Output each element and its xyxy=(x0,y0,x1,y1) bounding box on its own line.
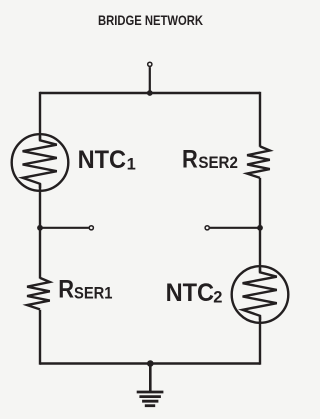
ground bar 3 xyxy=(142,400,158,403)
wire right tap xyxy=(210,227,260,229)
label RSER1 xyxy=(58,276,112,304)
label NTC2 xyxy=(166,279,223,307)
terminal left tap (open circle) xyxy=(89,226,93,230)
node A (left tap) xyxy=(37,225,93,231)
wire left upper (top wire to NTC1) xyxy=(39,92,41,140)
svg-text:R: R xyxy=(182,146,198,174)
svg-text:NTC: NTC xyxy=(78,146,127,174)
terminal VIN (open circle, top) xyxy=(147,62,153,96)
ground bar 1 xyxy=(137,391,164,394)
svg-text:SER2: SER2 xyxy=(198,154,238,172)
junction dot top xyxy=(147,90,153,96)
resistor RSER1 xyxy=(27,278,50,310)
junction dot bottom xyxy=(147,360,154,367)
wire left middle (NTC1 to RSER1) xyxy=(39,184,41,279)
svg-text:BRIDGE NETWORK: BRIDGE NETWORK xyxy=(98,12,203,28)
terminal right tap (open circle) xyxy=(205,226,209,230)
svg-text:1: 1 xyxy=(127,156,136,174)
junction dot left xyxy=(37,225,43,231)
svg-text:R: R xyxy=(58,276,74,304)
wire left lower (RSER1 to bottom wire) xyxy=(39,310,41,365)
node B (right tap) xyxy=(205,225,263,231)
label RSER2 xyxy=(182,146,238,174)
wire right lower (NTC2 to bottom wire) xyxy=(259,317,261,365)
wire bottom (node GND) xyxy=(40,362,260,364)
ground xyxy=(137,360,164,406)
wire terminal stem xyxy=(149,67,151,93)
wire right middle (RSER2 to NTC2) xyxy=(259,178,261,272)
wire left tap xyxy=(40,227,89,229)
resistor RSER2 xyxy=(247,146,270,178)
label NTC1 xyxy=(78,146,136,174)
thermistor NTC2 xyxy=(232,266,289,323)
ground bar 2 xyxy=(139,395,161,398)
svg-text:NTC: NTC xyxy=(166,279,215,307)
svg-text:SER1: SER1 xyxy=(74,284,113,302)
ground bar 4 xyxy=(145,404,155,407)
thermistor NTC1 xyxy=(12,134,69,191)
wire ground stem xyxy=(149,364,152,392)
wire top (node IN) xyxy=(40,92,260,94)
wire right upper (top wire to RSER2) xyxy=(259,92,261,147)
junction dot right xyxy=(257,225,263,231)
svg-text:2: 2 xyxy=(213,288,222,306)
